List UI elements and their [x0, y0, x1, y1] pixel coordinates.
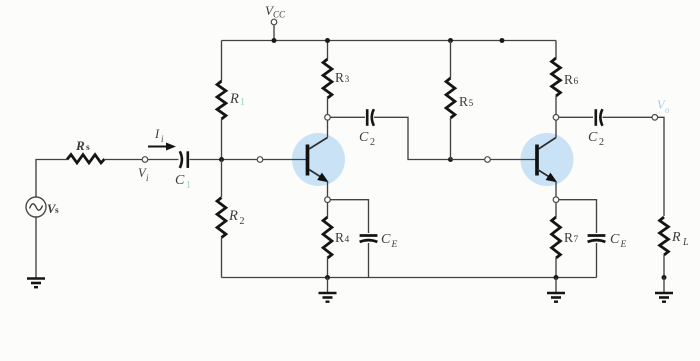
wire ground stub RL	[663, 278, 665, 293]
node Vi terminal	[142, 157, 148, 163]
svg-text:1: 1	[240, 97, 245, 108]
wire emitter1 to R4	[327, 202, 329, 217]
svg-text:s: s	[55, 206, 59, 216]
capacitor CE second	[588, 236, 606, 242]
capacitor C2 second	[596, 109, 603, 126]
svg-text:E: E	[391, 240, 398, 250]
svg-text:4: 4	[345, 235, 350, 245]
wire C1 to base Q1	[190, 159, 307, 161]
node junction at VCC	[272, 38, 277, 43]
svg-text:R: R	[335, 70, 344, 85]
svg-text:s: s	[86, 143, 90, 153]
ground below R7	[547, 293, 565, 302]
node collector2 terminal	[553, 115, 559, 121]
svg-text:E: E	[620, 240, 627, 250]
transistor Q1 symbol	[308, 138, 328, 182]
svg-text:5: 5	[469, 99, 474, 109]
wire Q2 collector up	[555, 120, 557, 138]
node base1 terminal	[257, 157, 263, 163]
wire R2 lower to rail	[221, 238, 223, 278]
svg-text:C: C	[588, 130, 598, 145]
wire emitter1 to CE1 branch	[330, 200, 368, 233]
node RL bottom dot	[662, 275, 667, 280]
wire collector1 to C2a	[330, 116, 365, 118]
wire R7 lower	[555, 258, 557, 278]
capacitor C2 first	[367, 109, 374, 126]
wire top rail	[222, 40, 557, 42]
resistor RS	[67, 155, 105, 163]
svg-text:2: 2	[370, 137, 375, 148]
resistor R6	[552, 58, 561, 96]
transistor Q1 highlight circle	[292, 133, 345, 186]
wire Q1 collector up	[327, 120, 329, 138]
node Vo terminal	[652, 115, 658, 121]
node junction R5 top	[448, 38, 453, 43]
wire Vs to input	[36, 160, 67, 198]
node junction R7 rail	[554, 275, 559, 280]
node emitter1 terminal	[325, 197, 331, 203]
wire R6 lower	[555, 96, 557, 115]
node VCC terminal	[271, 19, 277, 25]
wire R3 lower	[327, 98, 329, 115]
svg-text:R: R	[671, 230, 681, 245]
resistor R4	[323, 217, 332, 258]
svg-text:C: C	[175, 173, 185, 188]
wire Vo to RL	[658, 117, 664, 216]
svg-text:R: R	[335, 230, 344, 245]
wire R5 upper	[450, 41, 452, 79]
svg-text:C: C	[381, 232, 391, 247]
capacitor C1	[180, 151, 188, 168]
ground below RL	[655, 293, 673, 302]
wire CE2 lower	[596, 243, 598, 278]
voltage source Vs	[26, 197, 46, 217]
svg-text:R: R	[75, 138, 85, 153]
ground below R4	[319, 293, 337, 302]
wire R4 lower	[327, 258, 329, 278]
wire Vs to ground	[35, 217, 37, 278]
wire R6 branch upper	[555, 41, 557, 59]
wire VCC stub	[273, 25, 275, 41]
wire emitter2 to R7	[555, 202, 557, 217]
wire R5node to base Q2	[451, 159, 536, 161]
resistor R3	[323, 59, 332, 98]
svg-text:CC: CC	[273, 10, 286, 20]
node stray junction on rail	[500, 38, 505, 43]
wire R2 upper	[221, 160, 223, 198]
transistor Q2 highlight circle	[521, 133, 574, 186]
node junction R3 top	[325, 38, 330, 43]
svg-text:R: R	[564, 72, 573, 87]
node collector1 terminal	[325, 115, 331, 121]
transistor Q2 symbol	[537, 138, 556, 182]
resistor R2	[217, 198, 226, 238]
wire Q2 emitter down	[555, 182, 557, 198]
svg-text:R: R	[564, 230, 573, 245]
ground below Vs	[27, 279, 45, 288]
svg-text:R: R	[459, 94, 468, 109]
wire R5 lower	[450, 118, 452, 160]
wire C2b to Vo	[603, 116, 653, 118]
node junction R5 bottom	[448, 157, 453, 162]
resistor R1	[217, 81, 226, 119]
svg-text:I: I	[154, 127, 160, 141]
wire R1 branch upper	[221, 41, 223, 82]
capacitor CE first	[360, 236, 378, 242]
svg-text:2: 2	[599, 137, 604, 148]
wire emitter2 to CE2 branch	[559, 200, 597, 233]
svg-text:7: 7	[574, 235, 579, 245]
wire ground stub R4	[327, 278, 329, 293]
svg-text:2: 2	[240, 216, 245, 227]
svg-text:R: R	[229, 91, 239, 107]
svg-text:1: 1	[186, 180, 191, 191]
wire ground stub R7	[555, 278, 557, 293]
arrow Ii	[148, 143, 176, 151]
svg-text:C: C	[359, 130, 369, 145]
wire R3 branch upper	[327, 41, 329, 60]
wire bottom rail	[222, 277, 597, 279]
wire CE1 lower	[368, 243, 370, 278]
wire R1 branch lower	[221, 119, 223, 160]
svg-text:6: 6	[574, 77, 579, 87]
svg-text:L: L	[682, 237, 689, 248]
node base2 terminal	[485, 157, 491, 163]
resistor R5	[446, 78, 455, 118]
node junction R4 rail	[325, 275, 330, 280]
svg-text:o: o	[665, 105, 670, 115]
wire RS to Vi	[104, 159, 179, 161]
wire Q1 emitter down	[327, 182, 329, 198]
resistor R7	[552, 217, 561, 258]
resistor RL	[660, 217, 669, 255]
node emitter2 terminal	[553, 197, 559, 203]
svg-text:3: 3	[345, 75, 350, 85]
svg-text:C: C	[610, 232, 620, 247]
node junction input/R1R2	[219, 157, 224, 162]
wire RL lower	[663, 255, 665, 278]
wire collector2 to C2b	[559, 116, 593, 118]
svg-text:R: R	[228, 208, 238, 224]
wire C2a to R5 node	[374, 117, 450, 159]
